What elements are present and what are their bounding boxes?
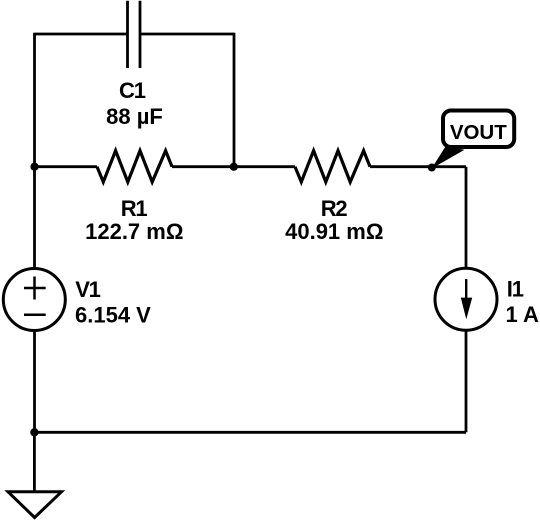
resistor R1 — [97, 151, 172, 182]
VOUT flag — [432, 111, 515, 169]
wire top-right horizontal — [140, 33, 234, 36]
svg-text:V1: V1 — [75, 277, 100, 302]
wire right rail lower — [465, 300, 468, 432]
svg-text:VOUT: VOUT — [450, 121, 507, 144]
wire middle between R1 and R2 — [172, 165, 295, 168]
svg-text:C1: C1 — [119, 78, 146, 103]
wire right rail — [465, 167, 468, 300]
wire left rail — [33, 33, 36, 300]
node junction cap-right — [230, 163, 238, 171]
svg-text:R1: R1 — [121, 196, 148, 221]
node VOUT junction — [428, 164, 436, 172]
ground — [8, 492, 62, 518]
svg-text:40.91 mΩ: 40.91 mΩ — [285, 219, 383, 244]
wire cap-loop right vertical — [233, 33, 236, 167]
wire left rail lower — [33, 300, 36, 432]
svg-text:R2: R2 — [321, 196, 348, 221]
svg-text:1 A: 1 A — [506, 302, 540, 327]
svg-text:6.154 V: 6.154 V — [75, 303, 151, 328]
svg-text:I1: I1 — [507, 277, 524, 302]
voltage source V1 — [3, 269, 65, 331]
current source I1 — [435, 268, 497, 330]
node junction bottom-left — [30, 428, 38, 436]
svg-text:88 µF: 88 µF — [106, 104, 163, 129]
wire top-left horizontal — [35, 33, 128, 36]
wire middle right segment to VOUT node — [370, 165, 466, 168]
wire bottom horizontal — [34, 431, 466, 434]
svg-text:122.7 mΩ: 122.7 mΩ — [85, 219, 183, 244]
capacitor C1 — [128, 1, 141, 68]
wire middle left segment — [35, 165, 98, 168]
wire ground stem — [33, 432, 36, 492]
resistor R2 — [295, 151, 370, 182]
node junction left — [30, 163, 38, 171]
